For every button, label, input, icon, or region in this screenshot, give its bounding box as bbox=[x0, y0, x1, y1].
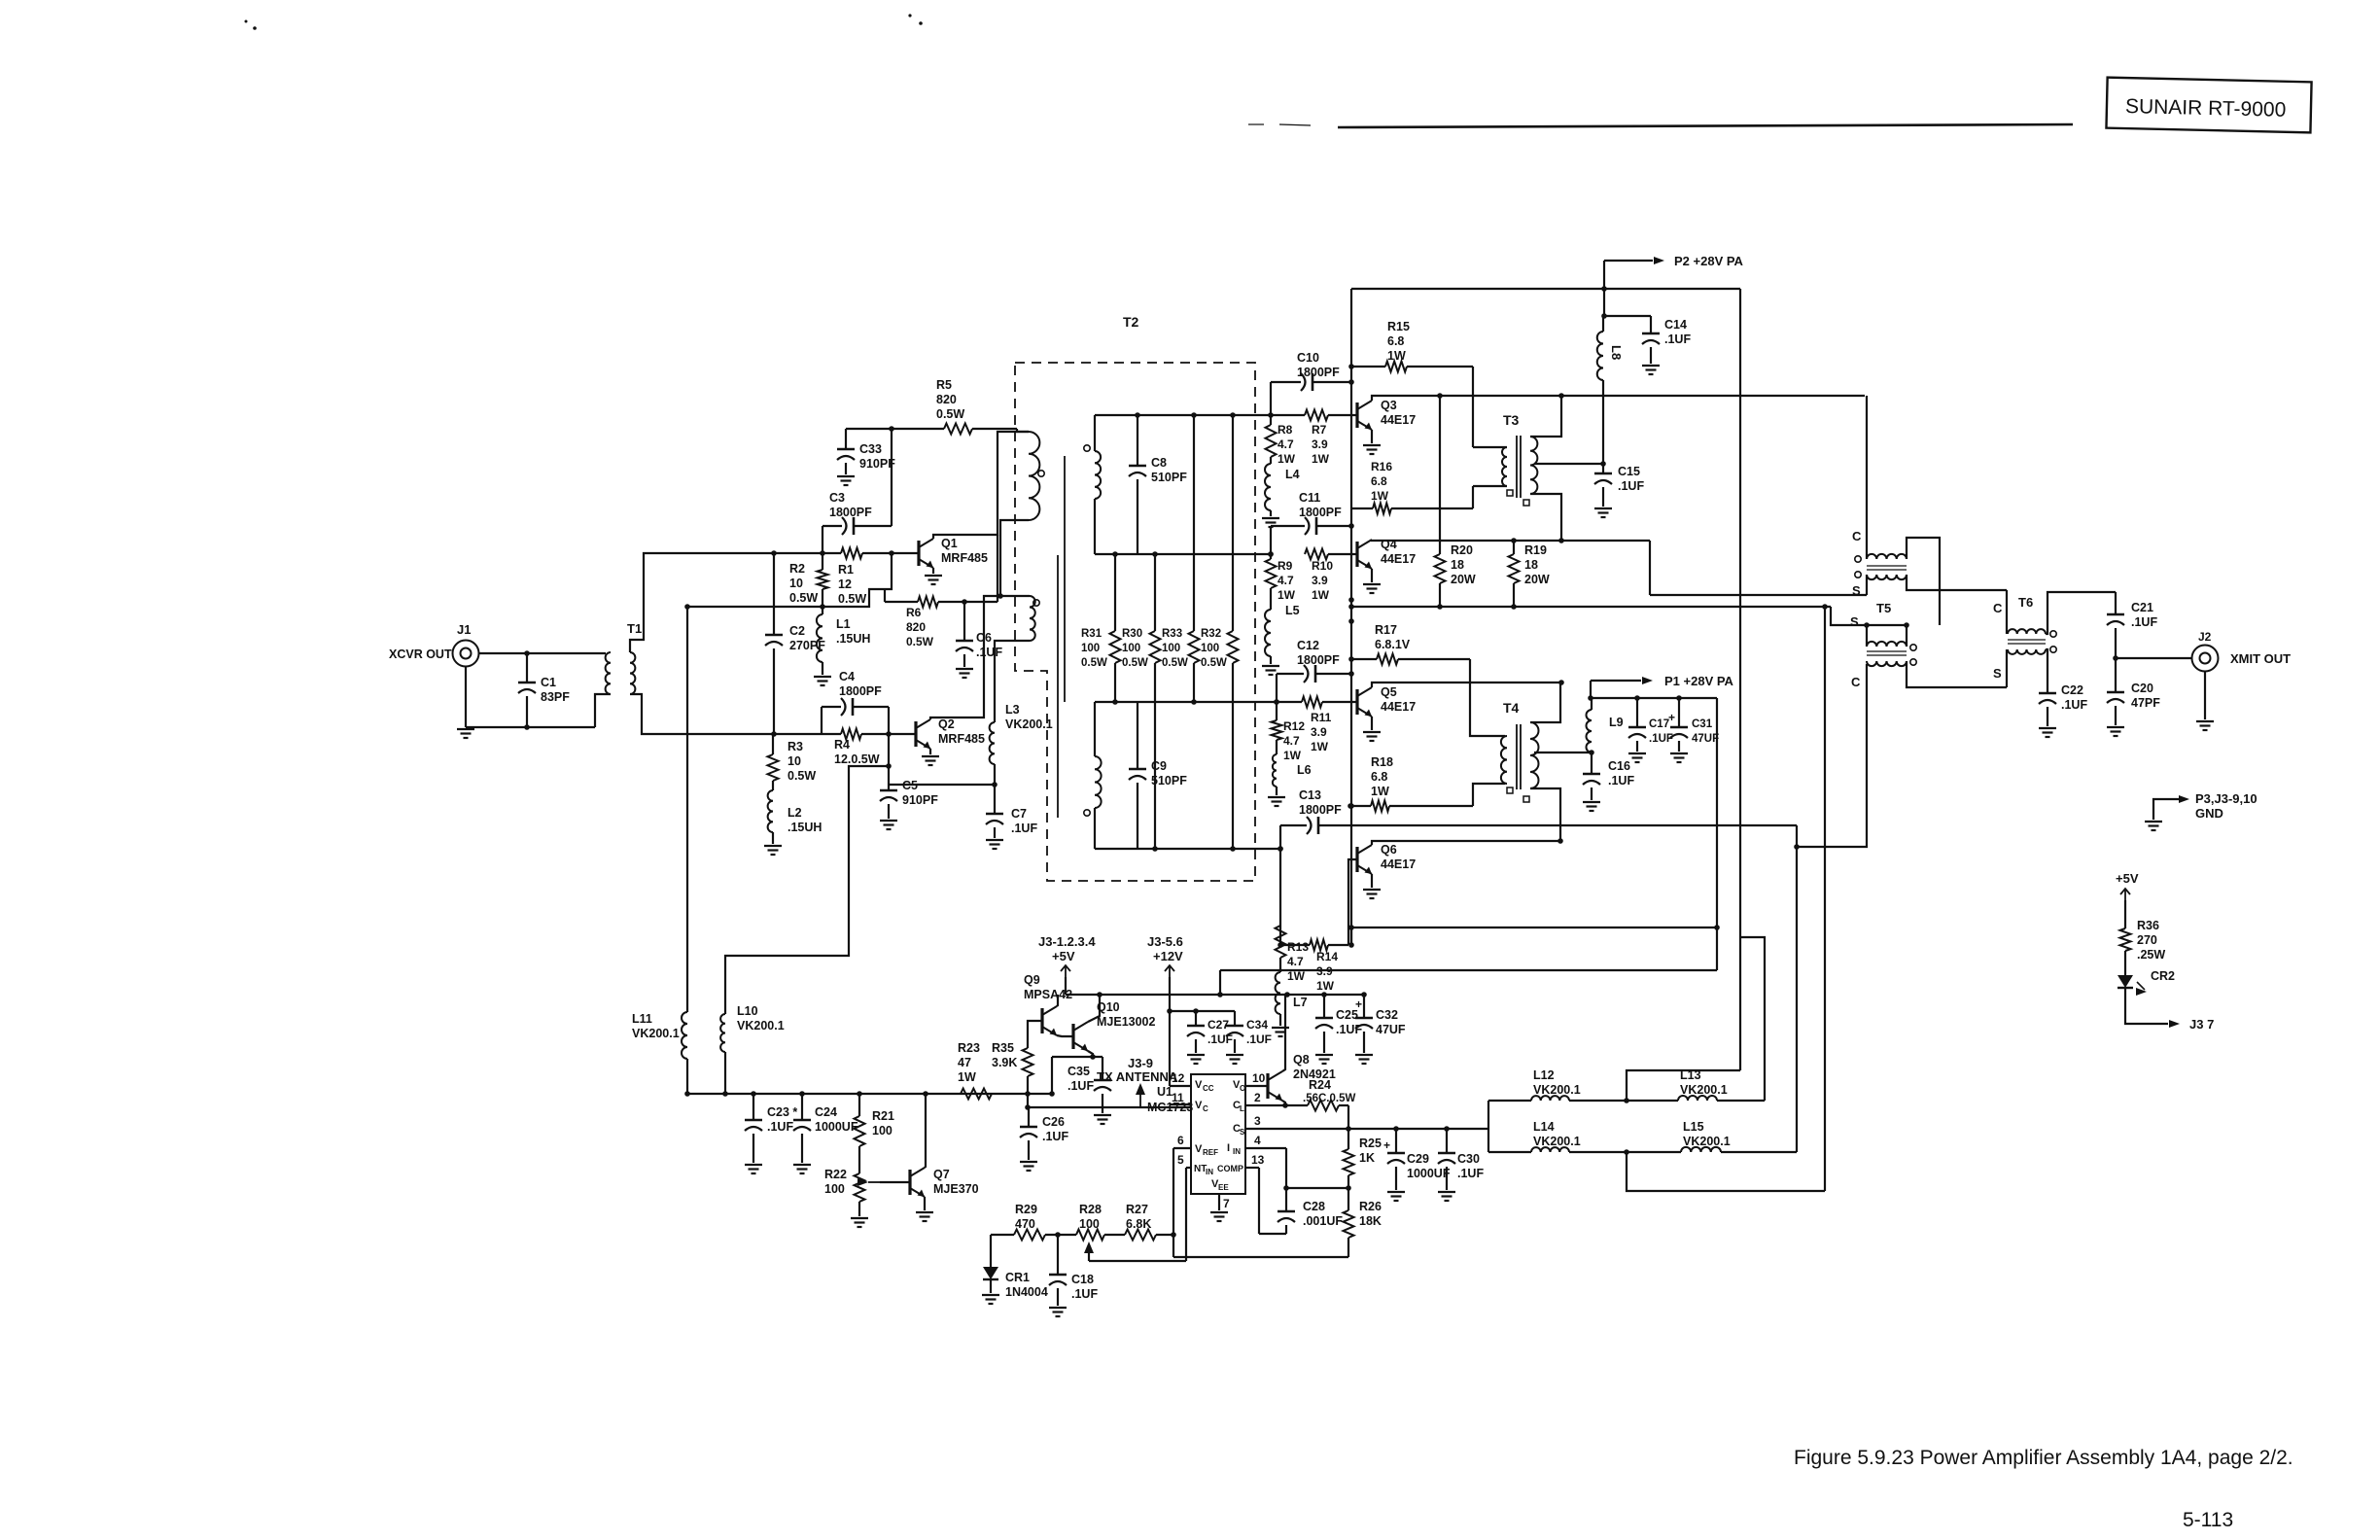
svg-text:R7: R7 bbox=[1312, 423, 1327, 437]
svg-text:R35: R35 bbox=[992, 1041, 1014, 1055]
transformer T4 bbox=[1501, 700, 1539, 802]
ground L6 bbox=[1268, 796, 1285, 798]
resistor R15 bbox=[1348, 320, 1473, 372]
wire L15 loop bbox=[1627, 1152, 1825, 1191]
svg-text:C35: C35 bbox=[1067, 1065, 1090, 1078]
inductor L9 bbox=[1587, 698, 1624, 752]
svg-text:.1UF: .1UF bbox=[1071, 1287, 1098, 1301]
svg-text:C27: C27 bbox=[1207, 1018, 1229, 1032]
capacitor C12 bbox=[1297, 639, 1340, 682]
capacitor C22 bbox=[2039, 683, 2087, 726]
capacitor C25 bbox=[1315, 995, 1362, 1053]
resistor R35 bbox=[992, 1021, 1042, 1094]
svg-text:1W: 1W bbox=[1387, 349, 1406, 363]
svg-text:R12: R12 bbox=[1283, 719, 1305, 733]
ground C14 bbox=[1642, 365, 1660, 367]
transistor Q7 bbox=[880, 1168, 979, 1197]
svg-text:7: 7 bbox=[1223, 1197, 1230, 1210]
ground C26 bbox=[1020, 1161, 1037, 1163]
resistor R21 bbox=[855, 1094, 894, 1146]
ground L7 bbox=[1272, 1027, 1289, 1029]
svg-text:10: 10 bbox=[789, 577, 803, 590]
wire Q7 collector bbox=[925, 1094, 926, 1168]
wire S line 624 bbox=[1348, 604, 1909, 628]
svg-text:4.7: 4.7 bbox=[1277, 574, 1294, 587]
wire P2 feed bbox=[1601, 261, 1653, 319]
wire C10 net bbox=[1271, 379, 1354, 425]
svg-text:44E17: 44E17 bbox=[1381, 857, 1416, 871]
svg-text:0.5W: 0.5W bbox=[1201, 657, 1227, 669]
svg-text:L3: L3 bbox=[1005, 703, 1020, 717]
svg-text:C16: C16 bbox=[1608, 759, 1630, 773]
resistor R27 bbox=[1125, 1203, 1156, 1241]
svg-text:L15: L15 bbox=[1683, 1120, 1704, 1134]
wire V1877 loop bbox=[1824, 607, 1826, 1191]
resistor R30 bbox=[1122, 554, 1161, 849]
svg-text:L: L bbox=[1240, 1104, 1244, 1113]
svg-text:.1UF: .1UF bbox=[1618, 479, 1644, 493]
wire V1790 28V down bbox=[1739, 289, 1741, 1070]
resistor R33 bbox=[1162, 415, 1200, 702]
svg-text:+: + bbox=[1355, 997, 1362, 1011]
svg-text:XMIT OUT: XMIT OUT bbox=[2230, 651, 2291, 666]
capacitor C29 bbox=[1383, 1129, 1451, 1190]
svg-text:1W: 1W bbox=[1371, 489, 1389, 503]
svg-text:20W: 20W bbox=[1524, 573, 1550, 586]
svg-text:1W: 1W bbox=[958, 1070, 976, 1084]
transformer T5 bbox=[1855, 554, 1916, 666]
ground L5 bbox=[1262, 665, 1279, 667]
svg-text:6.8K: 6.8K bbox=[1126, 1217, 1151, 1231]
svg-text:0.5W: 0.5W bbox=[789, 591, 818, 605]
svg-text:Q9: Q9 bbox=[1024, 973, 1040, 987]
capacitor C24 bbox=[793, 1094, 858, 1163]
svg-text:.1UF: .1UF bbox=[1649, 733, 1673, 745]
svg-text:R15: R15 bbox=[1387, 320, 1410, 333]
connector J1 bbox=[453, 622, 479, 667]
arrow P1 bbox=[1642, 677, 1653, 684]
svg-text:1800PF: 1800PF bbox=[829, 506, 872, 519]
svg-text:6.8: 6.8 bbox=[1387, 334, 1404, 348]
svg-text:CR1: CR1 bbox=[1005, 1271, 1030, 1284]
wire Q9 emitter to Q10 base bbox=[1057, 1035, 1073, 1036]
wire T3 center tap bbox=[1534, 461, 1606, 467]
wire J1 to T1 bbox=[478, 652, 606, 654]
transformer T3 bbox=[1502, 412, 1537, 506]
wire T2 bottom rail bbox=[1095, 846, 1283, 852]
svg-text:J3-5.6: J3-5.6 bbox=[1147, 934, 1183, 949]
svg-text:S: S bbox=[1850, 614, 1859, 629]
svg-text:1W: 1W bbox=[1312, 452, 1330, 466]
svg-text:1800PF: 1800PF bbox=[1299, 803, 1342, 817]
wire V1531 bbox=[1487, 1101, 1489, 1152]
ground U1 pin7 bbox=[1210, 1211, 1228, 1213]
resistor R25 bbox=[1344, 1129, 1382, 1191]
svg-text:1800PF: 1800PF bbox=[1299, 506, 1342, 519]
inductor L8 bbox=[1597, 316, 1624, 464]
svg-text:CR2: CR2 bbox=[2151, 969, 2175, 983]
svg-text:3.9: 3.9 bbox=[1312, 574, 1328, 587]
capacitor C15 bbox=[1594, 464, 1644, 507]
svg-text:R3: R3 bbox=[787, 740, 803, 753]
svg-text:C28: C28 bbox=[1303, 1200, 1325, 1213]
svg-text:C: C bbox=[1851, 675, 1861, 689]
ground CR1 bbox=[982, 1294, 999, 1296]
svg-text:V: V bbox=[1195, 1143, 1203, 1155]
ground C24 bbox=[793, 1164, 811, 1166]
svg-text:Q1: Q1 bbox=[941, 537, 958, 550]
ground Q7 bbox=[916, 1211, 933, 1213]
svg-text:100: 100 bbox=[1122, 643, 1140, 654]
capacitor C34 bbox=[1226, 1011, 1272, 1053]
svg-text:L13: L13 bbox=[1680, 1068, 1701, 1082]
svg-text:R16: R16 bbox=[1371, 460, 1392, 473]
svg-text:.1UF: .1UF bbox=[767, 1120, 793, 1134]
capacitor C31 bbox=[1668, 698, 1719, 752]
svg-text:10: 10 bbox=[787, 754, 801, 768]
T2 primary upper winding bbox=[1029, 432, 1044, 520]
svg-text:C21: C21 bbox=[2131, 601, 2153, 614]
ground Q3 bbox=[1363, 444, 1381, 446]
svg-text:1W: 1W bbox=[1316, 979, 1335, 993]
wire T2 lower winding bottom lead bbox=[995, 641, 1030, 722]
svg-text:R26: R26 bbox=[1359, 1200, 1382, 1213]
svg-text:.1UF: .1UF bbox=[1246, 1032, 1272, 1046]
capacitor C5 bbox=[880, 779, 938, 819]
ground J1 bbox=[457, 728, 474, 730]
svg-text:C29: C29 bbox=[1407, 1152, 1429, 1166]
svg-text:4: 4 bbox=[1254, 1134, 1261, 1147]
svg-text:Q2: Q2 bbox=[938, 717, 955, 731]
transistor Q8 bbox=[1268, 1053, 1336, 1101]
svg-text:R14: R14 bbox=[1316, 950, 1338, 963]
svg-text:18K: 18K bbox=[1359, 1214, 1382, 1228]
wire Q5 collector rail bbox=[1372, 680, 1564, 687]
inductor L2 bbox=[768, 790, 822, 844]
resistor R28 trimmer bbox=[1076, 1203, 1104, 1253]
svg-text:1W: 1W bbox=[1277, 452, 1296, 466]
capacitor C28 bbox=[1277, 1188, 1343, 1234]
svg-text:.1UF: .1UF bbox=[1067, 1079, 1094, 1093]
capacitor C26 bbox=[1020, 1107, 1068, 1160]
inductor L6 bbox=[1273, 740, 1312, 795]
wire C4-C5 vertical bbox=[886, 707, 892, 790]
capacitor C3 bbox=[822, 491, 892, 553]
svg-text:0.5W: 0.5W bbox=[1162, 657, 1188, 669]
svg-text:Figure 5.9.23 Power Amplifie: Figure 5.9.23 Power Amplifier Assembly 1… bbox=[1794, 1447, 2293, 1469]
svg-text:1000UF: 1000UF bbox=[1407, 1167, 1451, 1180]
svg-text:12.0.5W: 12.0.5W bbox=[834, 752, 880, 766]
svg-text:0.5W: 0.5W bbox=[838, 592, 866, 606]
wire pin7 VEE bbox=[1218, 1194, 1220, 1210]
resistor R12 bbox=[1272, 702, 1306, 762]
wire T4 right top lead bbox=[1530, 682, 1560, 722]
resistor R31 bbox=[1081, 554, 1121, 702]
svg-text:C3: C3 bbox=[829, 491, 845, 505]
wire J2 ground lead bbox=[2204, 672, 2206, 719]
LED CR2 bbox=[2117, 969, 2175, 996]
svg-text:R27: R27 bbox=[1126, 1203, 1148, 1216]
svg-text:20W: 20W bbox=[1451, 573, 1476, 586]
wire P1 feed bbox=[1588, 681, 1641, 701]
wire V1766 bbox=[1714, 698, 1720, 970]
wire H954 bbox=[1351, 927, 1717, 928]
wire +5V rail bbox=[1066, 977, 1367, 997]
svg-text:1800PF: 1800PF bbox=[1297, 653, 1340, 667]
svg-text:J2: J2 bbox=[2198, 630, 2212, 644]
wire Q7 emitter bbox=[924, 1197, 926, 1210]
wire Q5 emitter bbox=[1371, 717, 1373, 730]
svg-text:R8: R8 bbox=[1277, 423, 1293, 437]
svg-text:C30: C30 bbox=[1457, 1152, 1480, 1166]
svg-text:R5: R5 bbox=[936, 378, 952, 392]
T2 secondary lower winding bbox=[1084, 702, 1102, 849]
svg-text:100: 100 bbox=[1201, 643, 1219, 654]
svg-text:C11: C11 bbox=[1299, 491, 1320, 505]
capacitor C16 bbox=[1583, 752, 1634, 800]
svg-text:T5: T5 bbox=[1876, 601, 1891, 615]
wire Q3 emitter bbox=[1371, 430, 1373, 443]
wire T5 C return bbox=[1797, 664, 1867, 1152]
resistor R5 bbox=[936, 378, 972, 435]
svg-text:.15UH: .15UH bbox=[836, 632, 870, 646]
capacitor C10 bbox=[1297, 351, 1340, 391]
svg-text:10: 10 bbox=[1252, 1071, 1266, 1085]
ground C33 bbox=[837, 475, 855, 477]
svg-text:.1UF: .1UF bbox=[1608, 774, 1634, 787]
ground C22 bbox=[2039, 727, 2056, 729]
svg-text:IN: IN bbox=[1233, 1147, 1241, 1156]
svg-text:R11: R11 bbox=[1311, 711, 1332, 724]
svg-text:100: 100 bbox=[1162, 643, 1180, 654]
wire Q1 collector bbox=[933, 432, 1029, 539]
svg-text:6.8: 6.8 bbox=[1371, 474, 1387, 488]
svg-text:R10: R10 bbox=[1312, 559, 1333, 573]
svg-text:Q6: Q6 bbox=[1381, 843, 1397, 857]
page top-left speckles bbox=[245, 14, 923, 29]
svg-text:VK200.1: VK200.1 bbox=[1005, 717, 1053, 731]
svg-text:T3: T3 bbox=[1503, 412, 1520, 428]
svg-text:.1UF: .1UF bbox=[976, 646, 1002, 659]
title box SUNAIR RT-9000 bbox=[2106, 78, 2311, 133]
svg-text:P3,J3-9,10: P3,J3-9,10 bbox=[2195, 791, 2257, 806]
svg-text:U1: U1 bbox=[1157, 1085, 1172, 1099]
svg-text:C8: C8 bbox=[1151, 456, 1167, 470]
svg-text:I: I bbox=[1227, 1142, 1230, 1154]
svg-text:C2: C2 bbox=[789, 624, 805, 638]
svg-text:100: 100 bbox=[1079, 1217, 1100, 1231]
svg-text:R33: R33 bbox=[1162, 628, 1182, 640]
resistor R14 bbox=[1277, 940, 1348, 994]
svg-text:R28: R28 bbox=[1079, 1203, 1102, 1216]
inductor L12 bbox=[1488, 1068, 1627, 1101]
svg-text:L12: L12 bbox=[1533, 1068, 1555, 1082]
ground C29 bbox=[1387, 1191, 1405, 1193]
resistor R9 bbox=[1266, 559, 1296, 602]
svg-text:3.9: 3.9 bbox=[1311, 725, 1327, 739]
svg-text:C4: C4 bbox=[839, 670, 855, 683]
wire T1 sec bottom lead bbox=[630, 694, 774, 734]
svg-text:C10: C10 bbox=[1297, 351, 1319, 365]
svg-text:R4: R4 bbox=[834, 738, 850, 752]
resistor R11 bbox=[1277, 697, 1357, 754]
svg-text:C23 *: C23 * bbox=[767, 1105, 797, 1119]
svg-text:R18: R18 bbox=[1371, 755, 1393, 769]
svg-text:910PF: 910PF bbox=[902, 793, 938, 807]
resistor R4 bbox=[834, 729, 880, 767]
T2 secondary upper winding bbox=[1084, 415, 1101, 554]
transistor Q4 bbox=[1357, 538, 1416, 569]
svg-text:0.5W: 0.5W bbox=[936, 407, 964, 421]
svg-text:C34: C34 bbox=[1246, 1018, 1268, 1032]
svg-text:47: 47 bbox=[958, 1056, 971, 1069]
svg-text:+5V: +5V bbox=[2116, 871, 2139, 886]
svg-text:.1UF: .1UF bbox=[1664, 332, 1691, 346]
svg-text:C13: C13 bbox=[1299, 788, 1321, 802]
ground L4 bbox=[1262, 517, 1279, 519]
inductor L15 bbox=[1624, 1120, 1797, 1155]
svg-text:R25: R25 bbox=[1359, 1137, 1382, 1150]
svg-text:Q5: Q5 bbox=[1381, 685, 1397, 699]
ground P3 bbox=[2145, 821, 2162, 822]
wire C5 node to L3 node bbox=[889, 784, 995, 786]
wire Q6 base jog bbox=[1348, 859, 1357, 945]
arrow TX antenna bbox=[1136, 1083, 1145, 1107]
svg-text:.1UF: .1UF bbox=[2061, 698, 2087, 712]
svg-text:P1 +28V PA: P1 +28V PA bbox=[1664, 674, 1734, 688]
svg-text:J3 7: J3 7 bbox=[2189, 1017, 2214, 1032]
svg-text:VK200.1: VK200.1 bbox=[1680, 1083, 1728, 1097]
wire Q6 collector rail bbox=[1372, 838, 1563, 845]
svg-text:R31: R31 bbox=[1081, 628, 1102, 640]
capacitor C23 bbox=[745, 1094, 797, 1163]
wire H998 28V to control bbox=[1217, 970, 1717, 997]
svg-text:MRF485: MRF485 bbox=[938, 732, 985, 746]
wire pin2 CL line bbox=[1245, 1105, 1348, 1129]
capacitor C2 bbox=[765, 553, 825, 734]
wire L9 rail bbox=[1591, 695, 1717, 701]
svg-text:R36: R36 bbox=[2137, 919, 2159, 932]
ground J2 bbox=[2196, 720, 2214, 722]
svg-text:C31: C31 bbox=[1692, 718, 1713, 730]
resistor R13 bbox=[1276, 849, 1310, 983]
svg-text:L6: L6 bbox=[1297, 763, 1312, 777]
label TX ANTENNA bbox=[1097, 1056, 1178, 1084]
svg-text:510PF: 510PF bbox=[1151, 471, 1187, 484]
resistor R8 bbox=[1266, 423, 1296, 466]
svg-text:44E17: 44E17 bbox=[1381, 700, 1416, 714]
svg-text:V: V bbox=[1195, 1100, 1203, 1111]
svg-text:C24: C24 bbox=[815, 1105, 837, 1119]
capacitor C27 bbox=[1187, 1011, 1233, 1053]
svg-text:EE: EE bbox=[1218, 1183, 1229, 1192]
wire T2 upper winding bottom lead bbox=[1000, 520, 1029, 596]
label J3-1234 +5V bbox=[1038, 934, 1096, 963]
wire T3 right top lead bbox=[1530, 396, 1561, 437]
wire R18 to T4 bbox=[1473, 784, 1505, 806]
wire T4 right bottom lead bbox=[1530, 788, 1560, 841]
wire V1390 spine bbox=[1348, 289, 1354, 945]
transistor Q5 bbox=[1357, 685, 1416, 717]
svg-text:C7: C7 bbox=[1011, 807, 1027, 821]
resistor R32 bbox=[1201, 415, 1239, 849]
svg-text:J3-9: J3-9 bbox=[1128, 1056, 1153, 1070]
svg-text:T1: T1 bbox=[627, 621, 642, 636]
ground C18 bbox=[1049, 1307, 1067, 1309]
svg-text:REF: REF bbox=[1203, 1148, 1218, 1157]
wire Q4 collector rail bbox=[1372, 538, 1650, 543]
wire C12 net bbox=[1274, 671, 1354, 705]
capacitor C13 bbox=[1299, 788, 1342, 834]
svg-text:R22: R22 bbox=[824, 1168, 847, 1181]
transistor Q6 bbox=[1357, 843, 1416, 874]
svg-text:1W: 1W bbox=[1277, 588, 1296, 602]
svg-text:270PF: 270PF bbox=[789, 639, 825, 652]
wire T2 top rail bbox=[1095, 412, 1274, 418]
svg-text:12: 12 bbox=[1172, 1071, 1185, 1085]
svg-text:Q3: Q3 bbox=[1381, 399, 1397, 412]
svg-text:GND: GND bbox=[2195, 806, 2223, 821]
svg-text:L5: L5 bbox=[1285, 604, 1300, 617]
svg-text:100: 100 bbox=[1081, 643, 1100, 654]
svg-text:0.5W: 0.5W bbox=[1122, 657, 1148, 669]
svg-text:47UF: 47UF bbox=[1376, 1023, 1406, 1036]
svg-text:R17: R17 bbox=[1375, 623, 1397, 637]
capacitor C18 bbox=[1049, 1235, 1098, 1306]
svg-text:C26: C26 bbox=[1042, 1115, 1065, 1129]
svg-text:910PF: 910PF bbox=[859, 457, 895, 471]
wire top 28V rail bbox=[1351, 288, 1740, 290]
svg-text:MC1723: MC1723 bbox=[1147, 1101, 1193, 1114]
wire R5 line bbox=[846, 426, 1029, 432]
wire C3 to R5 vertical bbox=[891, 429, 892, 526]
capacitor C4 bbox=[822, 670, 889, 734]
svg-text:.1UF: .1UF bbox=[2131, 615, 2157, 629]
transformer T1 bbox=[606, 621, 643, 694]
potentiometer R22 bbox=[824, 1146, 880, 1216]
svg-text:C22: C22 bbox=[2061, 683, 2083, 697]
svg-text:100: 100 bbox=[824, 1182, 845, 1196]
svg-text:1K: 1K bbox=[1359, 1151, 1375, 1165]
svg-text:820: 820 bbox=[906, 620, 926, 634]
svg-text:.001UF: .001UF bbox=[1303, 1214, 1343, 1228]
svg-text:C14: C14 bbox=[1664, 318, 1687, 332]
capacitor C35 bbox=[1067, 1057, 1111, 1113]
capacitor C20 bbox=[2107, 655, 2160, 725]
svg-text:R23: R23 bbox=[958, 1041, 980, 1055]
ground R22 bbox=[851, 1217, 868, 1219]
svg-text:4.7: 4.7 bbox=[1277, 437, 1294, 451]
svg-text:J1: J1 bbox=[457, 622, 471, 637]
wire Q10 collector bbox=[1088, 995, 1100, 1022]
wire V1390 to 954 bbox=[1348, 927, 1354, 948]
resistor R16 bbox=[1351, 460, 1473, 514]
wire T1 sec top lead bbox=[630, 553, 774, 652]
resistor R18 bbox=[1347, 755, 1473, 812]
svg-text:18: 18 bbox=[1524, 558, 1538, 572]
wire T5 second coil leads bbox=[1867, 575, 2007, 595]
svg-text:47UF: 47UF bbox=[1692, 733, 1719, 745]
svg-text:VK200.1: VK200.1 bbox=[737, 1019, 785, 1032]
svg-text:XCVR OUT: XCVR OUT bbox=[389, 647, 452, 661]
ground Q1 bbox=[925, 575, 942, 577]
svg-text:VK200.1: VK200.1 bbox=[632, 1027, 680, 1040]
T2 core lines bbox=[1058, 456, 1065, 818]
svg-text:L14: L14 bbox=[1533, 1120, 1555, 1134]
svg-text:3.9: 3.9 bbox=[1312, 437, 1328, 451]
ground L1 bbox=[814, 676, 831, 678]
transformer T6 bbox=[2008, 595, 2056, 654]
